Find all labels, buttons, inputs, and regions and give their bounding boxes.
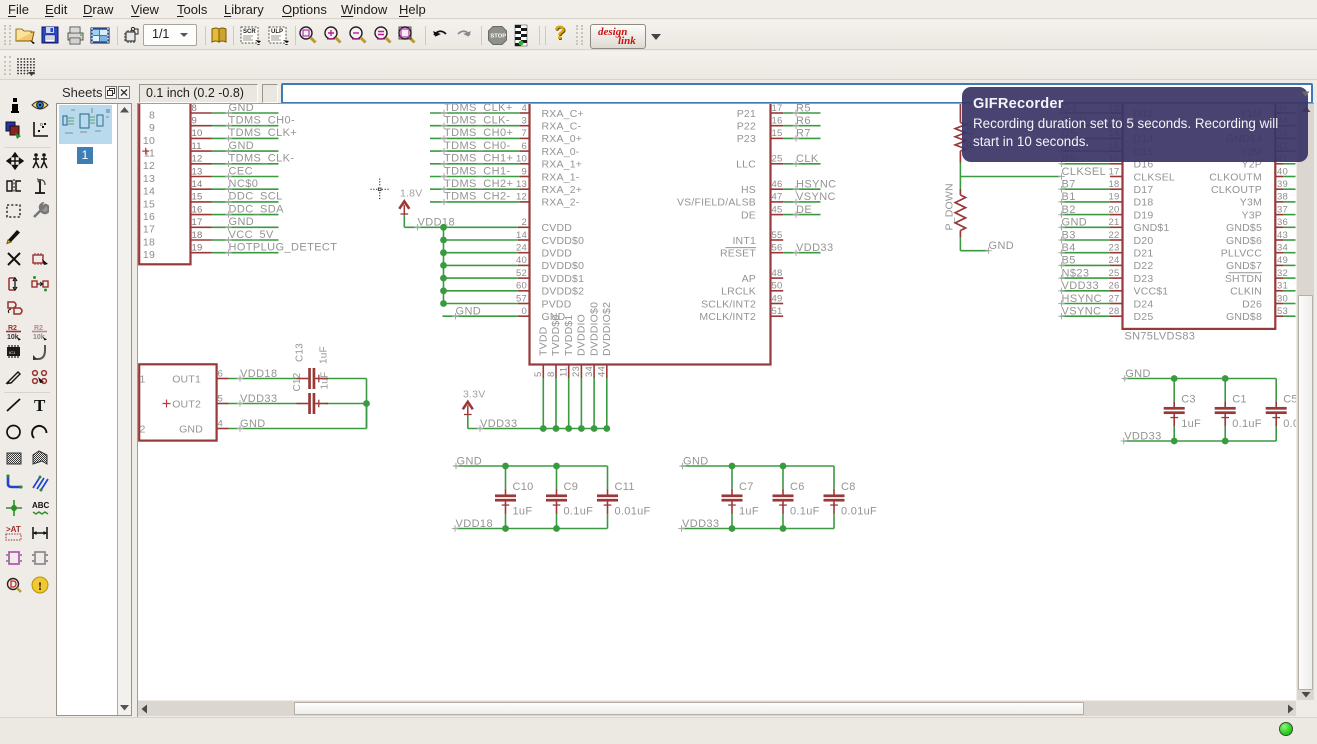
pin 17 of U1 (right): [771, 103, 784, 114]
wire U1 pin 34 to VDD33 rail: [593, 378, 595, 429]
pin 23 of U2 (left): [1109, 243, 1123, 254]
svg-text:31: 31: [1277, 281, 1288, 292]
svg-text:25: 25: [772, 154, 783, 165]
svg-text:1uF: 1uF: [739, 505, 759, 517]
pin 39 of U2 (right): [1275, 179, 1288, 190]
svg-text:46: 46: [772, 179, 783, 190]
svg-text:0.01uF: 0.01uF: [1283, 418, 1296, 430]
capacitor C5 0.01uF: [1266, 379, 1317, 442]
svg-text:24: 24: [1109, 255, 1120, 266]
svg-text:DVDDIO$2: DVDDIO$2: [601, 302, 613, 356]
pin 6 of CON2: [217, 368, 229, 379]
wire at U2 pin 37: [1283, 214, 1296, 216]
svg-text:36: 36: [1277, 217, 1288, 228]
svg-text:TDMS_CH0-: TDMS_CH0-: [229, 115, 296, 127]
wire net GND to U1 pin 0: [443, 306, 530, 320]
wire net VDD33 bottom rail: [468, 416, 607, 432]
wire net B1 at U2 pin 19: [1058, 191, 1110, 205]
svg-text:CLKSEL: CLKSEL: [1134, 171, 1175, 183]
wire net GND (top of C10 cluster): [453, 455, 608, 469]
pin 5 of U1 (bottom): [533, 365, 544, 379]
pin 23 of U1 (bottom): [571, 365, 582, 379]
wire net TDMS_CH0+ to U1 pin 7: [430, 127, 530, 141]
svg-text:RESET: RESET: [720, 248, 756, 260]
wire at U2 pin 53: [1283, 315, 1296, 317]
svg-text:VDD33: VDD33: [1124, 430, 1161, 442]
svg-text:21: 21: [1109, 217, 1120, 228]
svg-text:GND: GND: [1125, 368, 1151, 380]
svg-text:44: 44: [597, 366, 608, 377]
svg-text:D21: D21: [1134, 248, 1154, 260]
capacitor C6 0.1uF: [773, 466, 820, 529]
pin 27 of U2 (left): [1109, 293, 1123, 304]
junction VDD18 rail: [440, 262, 447, 269]
svg-text:HS: HS: [741, 184, 756, 196]
svg-text:0.01uF: 0.01uF: [615, 505, 651, 517]
wire net TDMS_CH1+ to U1 pin 10: [430, 153, 530, 167]
svg-text:TVDD$1: TVDD$1: [563, 315, 575, 356]
svg-text:C6: C6: [790, 481, 805, 493]
pin 8 of CON1: [191, 103, 212, 114]
svg-text:P21: P21: [737, 108, 756, 120]
svg-text:RXA_0-: RXA_0-: [542, 146, 580, 158]
svg-text:GND$1: GND$1: [1134, 222, 1170, 234]
pin 10 of CON1: [191, 128, 212, 139]
svg-text:VDD33: VDD33: [796, 242, 833, 254]
wire net VDD33 (CON2 pin 5 through C12): [229, 393, 367, 429]
svg-text:CLKOUTM: CLKOUTM: [1209, 171, 1262, 183]
svg-text:15: 15: [192, 192, 203, 203]
wire at U2 pin 36: [1283, 226, 1296, 228]
svg-text:DE: DE: [796, 204, 812, 216]
wire net N$23 at U2 pin 25: [1058, 267, 1110, 281]
svg-text:>AT: >AT: [6, 525, 21, 534]
pin 5 of CON2: [217, 393, 229, 404]
svg-text:STOP: STOP: [490, 34, 506, 40]
svg-text:CLKOUTP: CLKOUTP: [1211, 184, 1262, 196]
svg-text:CVDD$0: CVDD$0: [542, 235, 585, 247]
svg-text:9: 9: [522, 166, 527, 177]
svg-text:D18: D18: [1134, 197, 1154, 209]
wire net R7 at U1 pin 15: [783, 128, 820, 142]
mouse crosshair cursor: [371, 179, 390, 200]
svg-text:39: 39: [1277, 179, 1288, 190]
wire at U2 pin 32: [1283, 277, 1296, 279]
svg-text:CLKSEL: CLKSEL: [1062, 166, 1107, 178]
svg-text:53: 53: [1277, 306, 1288, 317]
svg-text:10: 10: [143, 135, 155, 147]
svg-text:43: 43: [1277, 230, 1288, 241]
svg-text:VCC$1: VCC$1: [1134, 286, 1169, 298]
svg-text:60: 60: [516, 281, 527, 292]
wire at U2 pin 43: [1283, 239, 1296, 241]
svg-text:TDMS_CLK+: TDMS_CLK+: [444, 104, 513, 114]
svg-text:TDMS_CLK-: TDMS_CLK-: [229, 153, 295, 165]
pin 51 of U1 (right): [771, 306, 784, 317]
wire net GND (CON1 pin 8): [212, 102, 279, 116]
wire net GND (top of C7 cluster): [679, 455, 834, 469]
svg-text:SHTDN: SHTDN: [1225, 273, 1262, 285]
svg-text:GND: GND: [229, 216, 255, 228]
wire VDD18 branch to U1 pin 14: [444, 230, 530, 241]
svg-text:IC1: IC1: [9, 350, 16, 355]
svg-text:5: 5: [533, 372, 544, 377]
svg-text:19: 19: [192, 243, 203, 254]
svg-text:40: 40: [516, 255, 527, 266]
svg-text:18: 18: [143, 236, 155, 248]
svg-text:RXA_C-: RXA_C-: [542, 121, 582, 133]
wire net TDMS_CLK- (CON1 pin 12): [212, 153, 295, 167]
junction C1 bottom: [1222, 438, 1229, 445]
pin 26 of U2 (left): [1109, 281, 1123, 292]
pin 15 of U1 (right): [771, 128, 784, 139]
svg-text:49: 49: [1277, 255, 1288, 266]
junction VDD18 rail: [440, 224, 447, 231]
pin 13 of U2 (left): [1109, 116, 1123, 127]
label SN75LVDS83 (U2 value): [1125, 331, 1196, 343]
svg-text:32: 32: [1277, 268, 1288, 279]
svg-text:NC$0: NC$0: [229, 178, 259, 190]
wire net TDMS_CH2- to U1 pin 12: [430, 191, 530, 205]
svg-text:12: 12: [516, 192, 527, 203]
svg-text:37: 37: [1277, 204, 1288, 215]
svg-text:SN75LVDS83: SN75LVDS83: [1125, 331, 1196, 343]
svg-text:TVDD: TVDD: [538, 326, 550, 356]
junction VDD18 rail: [440, 249, 447, 256]
capacitor C7 1uF: [722, 466, 759, 529]
junction VDD18 rail: [440, 287, 447, 294]
pin 16 of U1 (right): [771, 116, 784, 127]
svg-text:18: 18: [192, 230, 203, 241]
svg-text:D24: D24: [1134, 298, 1154, 310]
svg-text:48: 48: [772, 268, 783, 279]
svg-text:HSYNC: HSYNC: [796, 179, 837, 191]
svg-text:RXA_C+: RXA_C+: [542, 108, 584, 120]
wire net GND (CON1 pin 17): [212, 216, 279, 230]
wire net DDC_SCL (CON1 pin 15): [212, 191, 283, 205]
pin 24 of U2 (left): [1109, 255, 1123, 266]
svg-text:1uF: 1uF: [319, 346, 330, 364]
svg-text:14: 14: [143, 186, 155, 198]
svg-text:o: o: [40, 122, 43, 128]
svg-text:GND$6: GND$6: [1226, 235, 1262, 247]
wire net DDC_SDA (CON1 pin 16): [212, 203, 285, 217]
svg-text:VDD33: VDD33: [240, 393, 277, 405]
svg-text:HOTPLUG_DETECT: HOTPLUG_DETECT: [229, 242, 338, 254]
svg-text:51: 51: [772, 306, 783, 317]
supply symbol 1.8V: [399, 188, 422, 216]
wire U1 pin 8 to VDD33 rail: [555, 378, 557, 429]
svg-text:0.01uF: 0.01uF: [841, 505, 877, 517]
svg-text:B2: B2: [1062, 204, 1076, 216]
svg-text:16: 16: [143, 211, 155, 223]
svg-text:8: 8: [149, 109, 155, 121]
pin 8 of U1 (bottom): [546, 365, 557, 379]
svg-text:DVDD$1: DVDD$1: [542, 273, 585, 285]
svg-text:C1: C1: [1232, 393, 1247, 405]
wire net CLK at U1 pin 25: [783, 153, 820, 167]
svg-text:19: 19: [143, 249, 155, 261]
connector CON1 (HDMI) body: [139, 96, 190, 264]
svg-text:10: 10: [516, 154, 527, 165]
svg-text:CLK: CLK: [796, 153, 819, 165]
svg-text:GND: GND: [229, 104, 255, 114]
pin 19 of U2 (left): [1109, 192, 1123, 203]
pin 42 of U2 (right): [1275, 141, 1288, 152]
pin 32 of U2 (right): [1275, 268, 1288, 279]
svg-text:VDD18: VDD18: [456, 518, 493, 530]
wire VDD18 branch to U1 pin 40: [444, 255, 530, 266]
svg-text:13: 13: [192, 166, 203, 177]
svg-text:C8: C8: [841, 481, 856, 493]
svg-text:C5: C5: [1283, 393, 1296, 405]
svg-text:TDMS_CLK-: TDMS_CLK-: [444, 115, 510, 127]
wire net VDD18 (bottom of C10 cluster): [452, 518, 608, 532]
svg-text:14: 14: [516, 230, 527, 241]
op IC U1 (video decoder) body: [139, 96, 1317, 532]
svg-text:23: 23: [571, 366, 582, 377]
svg-text:2: 2: [140, 423, 146, 435]
wire net TDMS_CH0- (CON1 pin 9): [212, 115, 296, 129]
pin 16 of CON1: [191, 204, 212, 215]
junction C7 top: [729, 463, 736, 470]
wire net VDD33 (bottom of C3 cluster): [1121, 430, 1277, 444]
wire net GND at U2 pin 21: [1058, 217, 1110, 231]
wire VDD18 branch to U1 pin 52: [444, 268, 530, 279]
svg-text:0.1uF: 0.1uF: [564, 505, 594, 517]
wire net TDMS_CH1- to U1 pin 9: [430, 165, 530, 179]
pin 40 of U2 (right): [1275, 166, 1288, 177]
wire at U2 pin 30: [1283, 303, 1296, 305]
capacitor C13 1uF: [295, 343, 330, 389]
svg-text:C9: C9: [564, 481, 579, 493]
wire net B6 at U2 pin 16: [1058, 153, 1110, 167]
wire net R5 at U1 pin 17: [783, 102, 820, 116]
wire net GND (CON2 pin 4): [229, 404, 367, 432]
pin 16 of U2 (left): [1109, 154, 1123, 165]
wire at U2 pin 39: [1283, 188, 1296, 190]
svg-text:GND$8: GND$8: [1226, 311, 1262, 323]
svg-text:4: 4: [522, 104, 527, 114]
svg-text:17: 17: [192, 217, 203, 228]
svg-text:D23: D23: [1134, 273, 1154, 285]
pin 48 of U1 (right): [771, 268, 784, 279]
wire at U2 pin 41: [1283, 163, 1296, 165]
pin 21 of U2 (left): [1109, 217, 1123, 228]
pin 22 of U2 (left): [1109, 230, 1123, 241]
svg-text:6: 6: [522, 141, 527, 152]
svg-text:8: 8: [192, 104, 197, 114]
pin 25 of U1 (right): [771, 154, 784, 165]
svg-text:PVDD: PVDD: [542, 298, 572, 310]
svg-text:9: 9: [149, 122, 155, 134]
junction C10 top: [502, 463, 509, 470]
pin 18 of U2 (left): [1109, 179, 1123, 190]
capacitor C12 1uF: [292, 372, 331, 414]
svg-text:1.8V: 1.8V: [400, 188, 422, 200]
svg-text:VDD18: VDD18: [240, 368, 277, 380]
svg-text:52: 52: [516, 268, 527, 279]
svg-text:DDC_SCL: DDC_SCL: [229, 191, 283, 203]
svg-text:TDMS_CH1+: TDMS_CH1+: [444, 153, 513, 165]
svg-text:30: 30: [1277, 293, 1288, 304]
svg-text:OUT1: OUT1: [172, 373, 201, 385]
svg-text:P23: P23: [737, 133, 756, 145]
svg-text:RXA_2-: RXA_2-: [542, 197, 580, 209]
svg-text:MCLK/INT2: MCLK/INT2: [699, 311, 756, 323]
junction VDD33 rail: [540, 425, 547, 432]
pin 34 of U2 (right): [1275, 243, 1288, 254]
svg-text:17: 17: [772, 104, 783, 114]
junction VDD33 rail: [553, 425, 560, 432]
svg-text:GND: GND: [683, 455, 709, 467]
svg-text:HSYNC: HSYNC: [1062, 293, 1103, 305]
junction C3 top: [1171, 375, 1178, 382]
svg-text:GND: GND: [456, 306, 482, 318]
pin 14 of U2 (left): [1109, 128, 1123, 139]
svg-text:9: 9: [192, 116, 197, 127]
junction C6 bottom: [780, 525, 787, 532]
svg-text:0.1uF: 0.1uF: [790, 505, 820, 517]
svg-text:1: 1: [140, 373, 146, 385]
svg-text:GND: GND: [457, 455, 483, 467]
pin 4 of CON2: [217, 418, 229, 429]
svg-text:10: 10: [192, 128, 203, 139]
pin 14 of CON1: [191, 179, 212, 190]
junction VDD33 rail: [591, 425, 598, 432]
resistor R2 (P_DOWN pull-down): [955, 189, 965, 237]
svg-text:15: 15: [772, 128, 783, 139]
svg-text:DDC_SDA: DDC_SDA: [229, 203, 285, 215]
svg-text:CEC: CEC: [229, 165, 253, 177]
svg-text:GND: GND: [1062, 217, 1088, 229]
pin 17 of CON1: [191, 217, 212, 228]
wire net B2 at U2 pin 20: [1058, 204, 1110, 218]
junction C7 bottom: [729, 525, 736, 532]
svg-text:11: 11: [559, 367, 570, 377]
svg-text:13: 13: [516, 179, 527, 190]
svg-text:6: 6: [218, 368, 223, 379]
svg-text:24: 24: [516, 243, 527, 254]
wire net VDD33 (bottom of C7 cluster): [678, 518, 834, 532]
svg-text:17: 17: [143, 224, 155, 236]
svg-text:GND: GND: [240, 418, 266, 430]
svg-text:INT1: INT1: [732, 235, 756, 247]
IC U2 SN75LVDS83 body: [371, 96, 1296, 343]
svg-text:19: 19: [1109, 192, 1120, 203]
svg-text:C7: C7: [739, 481, 754, 493]
pin 38 of U2 (right): [1275, 192, 1288, 203]
capacitor C1 0.1uF: [1215, 379, 1262, 442]
junction C10 bottom: [502, 525, 509, 532]
junction VDD18 rail: [440, 300, 447, 307]
wire net HSYNC at U1 pin 46: [783, 179, 836, 193]
svg-text:17: 17: [1109, 166, 1120, 177]
wire net B7 at U2 pin 18: [1058, 179, 1110, 193]
svg-text:15: 15: [143, 198, 155, 210]
svg-text:D22: D22: [1134, 260, 1154, 272]
wire at U2 pin 45: [1283, 112, 1296, 114]
wire net NC$0 (CON1 pin 14): [212, 178, 279, 192]
svg-text:GND: GND: [229, 140, 255, 152]
svg-text:23: 23: [1109, 243, 1120, 254]
wire net B4 at U2 pin 23: [1058, 242, 1110, 256]
wire net VDD33 at U2 pin 26: [1058, 280, 1110, 294]
svg-text:VDD33: VDD33: [480, 418, 517, 430]
pin 44 of U1 (bottom): [597, 365, 608, 379]
capacitor C9 0.1uF: [546, 466, 593, 529]
junction VDD18 rail: [440, 237, 447, 244]
pin 35 of U2 (right): [1275, 128, 1288, 139]
connector CON2 body (OUT1/OUT2/GND): [139, 364, 216, 440]
wire at U2 pin 42: [1283, 150, 1296, 152]
junction C9 top: [553, 463, 560, 470]
pin 43 of U2 (right): [1275, 230, 1288, 241]
pin 25 of U2 (left): [1109, 268, 1123, 279]
wire net HSYNC at U2 pin 27: [1058, 293, 1110, 307]
svg-text:TDMS_CH2+: TDMS_CH2+: [444, 178, 513, 190]
junction C1 top: [1222, 375, 1229, 382]
pin 18 of CON1: [191, 230, 212, 241]
capacitor C10 1uF: [495, 466, 534, 529]
wire net VDD33 at U1 pin 56: [783, 242, 833, 256]
wire net G4 at U2 pin 12: [1058, 102, 1110, 116]
pin 11 of CON1: [191, 141, 212, 152]
svg-text:Y3M: Y3M: [1240, 197, 1262, 209]
svg-text:13: 13: [143, 173, 155, 185]
svg-text:GND: GND: [179, 423, 203, 435]
svg-text:C13: C13: [295, 343, 306, 362]
svg-text:C11: C11: [615, 481, 635, 493]
svg-text:D20: D20: [1134, 235, 1154, 247]
svg-text:1uF: 1uF: [320, 372, 331, 390]
pin 49 of U2 (right): [1275, 255, 1288, 266]
svg-text:DE: DE: [741, 209, 756, 221]
svg-text:11: 11: [192, 141, 202, 152]
label CLKSEL at U2 pin 17: [1058, 166, 1106, 180]
svg-text:47: 47: [772, 192, 783, 203]
svg-text:8: 8: [546, 372, 557, 377]
svg-text:RXA_2+: RXA_2+: [542, 184, 583, 196]
svg-text:CVDD: CVDD: [542, 222, 573, 234]
pin 12 of U2 (left): [1109, 103, 1123, 114]
svg-text:CLKIN: CLKIN: [1230, 286, 1262, 298]
svg-text:56: 56: [772, 243, 783, 254]
wire at U2 pin 40: [1283, 176, 1296, 178]
svg-text:28: 28: [1109, 306, 1120, 317]
svg-text:C12: C12: [292, 372, 303, 391]
pin 34 of U1 (bottom): [584, 365, 595, 379]
junction VDD33 rail: [578, 425, 585, 432]
wire at U2 pin 44: [1283, 125, 1296, 127]
wire at U2 pin 31: [1283, 290, 1296, 292]
pin 15 of CON1: [191, 192, 212, 203]
pin 9 of CON1: [191, 116, 212, 127]
svg-text:26: 26: [1109, 281, 1120, 292]
wire net VDD18 vertical rail: [404, 215, 455, 303]
pin 12 of CON1: [191, 154, 212, 165]
pin 30 of U2 (right): [1275, 293, 1288, 304]
junction C9 bottom: [553, 525, 560, 532]
svg-text:D26: D26: [1242, 298, 1262, 310]
svg-text:1uF: 1uF: [513, 505, 533, 517]
svg-text:3: 3: [522, 116, 527, 127]
wire net VSYNC at U1 pin 47: [783, 191, 836, 205]
wire net DE at U1 pin 45: [783, 204, 820, 218]
wire net P_DOWN vertical: [944, 163, 961, 231]
svg-text:C10: C10: [513, 481, 534, 493]
svg-text:14: 14: [192, 179, 203, 190]
